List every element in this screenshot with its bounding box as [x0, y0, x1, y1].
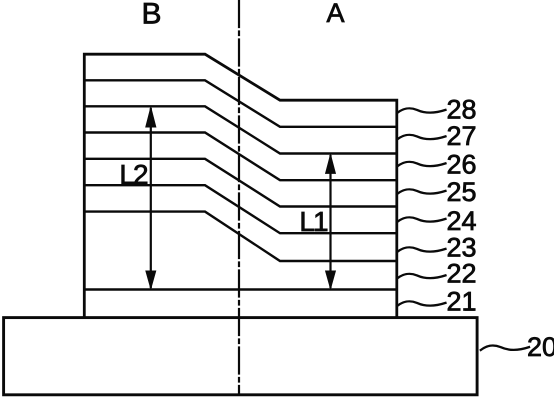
interface line 25/26 [84, 133, 397, 181]
interface line 27/28 [84, 80, 397, 127]
dimension arrow L2 [146, 108, 156, 289]
serif foot of digit 1 in label 21 [465, 308, 474, 310]
section line (B/A boundary, dash-dot) [238, 1, 240, 393]
leader for 26 [397, 162, 445, 167]
svg-text:24: 24 [446, 206, 476, 236]
svg-text:26: 26 [446, 150, 476, 180]
leader for 28 [397, 108, 445, 113]
leader for 20 [481, 345, 529, 350]
leader for 23 [397, 247, 445, 252]
svg-text:B: B [141, 0, 161, 31]
svg-text:28: 28 [446, 94, 476, 124]
interface line 22/23 [84, 212, 397, 261]
svg-text:L2: L2 [119, 159, 148, 190]
leader for 22 [397, 274, 445, 279]
svg-text:L1: L1 [299, 206, 328, 237]
leader for 27 [397, 135, 445, 140]
svg-text:25: 25 [446, 177, 476, 207]
interface line 26/27 [84, 106, 397, 153]
interface line 24/25 [84, 159, 397, 207]
interface line 21/22 (top of layer 21, full width) [84, 288, 397, 290]
svg-text:22: 22 [446, 258, 476, 288]
substrate 20 [4, 318, 478, 395]
leader for 24 [397, 217, 445, 222]
leader for 25 [397, 189, 445, 194]
dimension arrow L1 [326, 155, 336, 289]
svg-text:21: 21 [446, 287, 476, 317]
interface line 23/24 [84, 185, 397, 233]
svg-text:27: 27 [446, 121, 476, 151]
serif foot of digit 1 in label L1 [315, 229, 325, 232]
svg-text:A: A [326, 0, 344, 28]
svg-text:20: 20 [527, 332, 554, 362]
leader for 21 [397, 301, 445, 306]
layer stack outline (top of layer 28, left and right side walls) [84, 54, 397, 317]
